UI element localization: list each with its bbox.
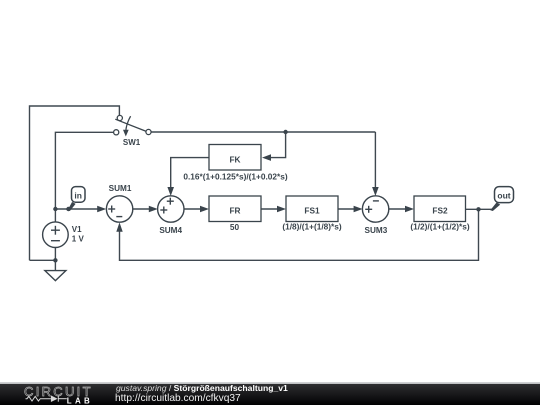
wire SW1 right terminal to disturbance line corner	[151, 131, 375, 133]
svg-text:FS1: FS1	[304, 205, 320, 215]
arrowhead into FS1	[277, 206, 286, 213]
wire disturbance tap down to FK input	[269, 132, 286, 158]
svg-text:FR: FR	[229, 205, 240, 215]
arrowhead into SUM3 left	[354, 206, 363, 213]
arrowhead into SUM4	[149, 206, 158, 213]
wire FS1 to SUM3	[338, 208, 355, 210]
svg-text:SUM4: SUM4	[159, 226, 182, 235]
svg-text:out: out	[497, 191, 510, 201]
wire disturbance down into SUM3	[374, 132, 376, 189]
block FK	[209, 145, 261, 171]
svg-text:SUM3: SUM3	[365, 226, 388, 235]
arrowhead down into SUM3 top	[372, 187, 379, 196]
svg-text:SUM1: SUM1	[109, 184, 132, 193]
svg-text:0.16*(1+0.125*s)/(1+0.02*s): 0.16*(1+0.125*s)/(1+0.02*s)	[183, 171, 287, 181]
switch SW1	[114, 115, 151, 136]
block FS1	[286, 196, 338, 222]
summer SUM3	[362, 196, 388, 222]
junction dot ground node	[53, 258, 57, 262]
flag in	[68, 187, 85, 211]
footer bar	[0, 384, 540, 405]
wire FS2 to output node	[466, 208, 493, 210]
wire SUM4 to FR	[184, 208, 202, 210]
arrowhead into SUM1	[97, 206, 106, 213]
junction dot output node	[476, 207, 480, 211]
svg-text:V1: V1	[72, 225, 82, 234]
svg-text:50: 50	[230, 222, 240, 232]
arrowhead into FK right side	[262, 154, 271, 161]
wire node to V1 top	[54, 208, 56, 222]
wire FR to FS1	[261, 208, 279, 210]
junction dot disturbance tap	[283, 130, 287, 134]
wire top-left loop from ground node up and over to SW1 common	[30, 106, 120, 260]
svg-text:(1/8)/(1+(1/8)*s): (1/8)/(1+(1/8)*s)	[282, 222, 341, 232]
wire SUM3 to FS2	[389, 208, 407, 210]
wire SUM1 to SUM4	[133, 208, 151, 210]
footer credit line	[116, 383, 288, 393]
svg-text:1 V: 1 V	[72, 235, 85, 244]
block FR	[209, 196, 261, 222]
summer SUM4	[158, 196, 184, 222]
svg-text:FS2: FS2	[432, 205, 448, 215]
summer SUM1	[106, 196, 132, 222]
svg-text:FK: FK	[229, 154, 240, 164]
arrowhead down into SUM4 top	[167, 187, 174, 196]
arrowhead into FR	[200, 206, 209, 213]
svg-text:LAB: LAB	[67, 397, 93, 405]
junction dot input node	[53, 207, 57, 211]
CircuitLab logo	[22, 383, 102, 405]
wire input node to SUM1	[55, 208, 98, 210]
junction dot in-flag tap	[66, 207, 70, 211]
ground	[45, 271, 66, 281]
arrowhead into FS2	[405, 206, 414, 213]
wire SW1 left terminal to input node	[55, 132, 113, 208]
wire V1 bottom to ground node	[54, 248, 56, 261]
block FS2	[414, 196, 466, 222]
svg-text:SW1: SW1	[123, 138, 141, 147]
wire FK output to SUM4	[171, 158, 209, 189]
arrowhead up into SUM1 bottom from feedback	[116, 222, 122, 231]
footer url line	[115, 394, 241, 404]
svg-text:in: in	[74, 190, 82, 200]
flag out	[490, 187, 513, 211]
footer separator line	[0, 382, 540, 384]
wire feedback loop from output node to SUM1	[120, 209, 479, 260]
voltage source V1	[43, 222, 69, 248]
svg-text:(1/2)/(1+(1/2)*s): (1/2)/(1+(1/2)*s)	[410, 222, 469, 232]
wire ground node stem	[30, 260, 56, 270]
